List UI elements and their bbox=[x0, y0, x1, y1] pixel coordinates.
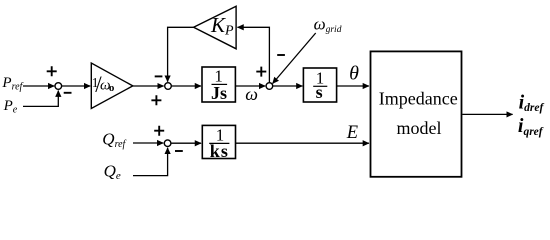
svg-text:Pref: Pref bbox=[1, 75, 23, 93]
svg-text:ω: ω bbox=[245, 84, 258, 104]
svg-text:Impedance: Impedance bbox=[379, 88, 458, 108]
svg-text:ks: ks bbox=[210, 141, 229, 161]
svg-text:Pe: Pe bbox=[3, 98, 18, 116]
svg-text:o: o bbox=[109, 82, 115, 94]
svg-text:model: model bbox=[397, 118, 442, 138]
svg-text:ωgrid: ωgrid bbox=[314, 15, 342, 35]
svg-text:E: E bbox=[346, 123, 358, 143]
svg-text:Qe: Qe bbox=[104, 162, 121, 183]
svg-text:θ: θ bbox=[349, 62, 359, 84]
svg-text:Js: Js bbox=[211, 83, 227, 103]
svg-text:iqref: iqref bbox=[518, 115, 544, 138]
svg-text:Qref: Qref bbox=[102, 130, 126, 151]
svg-text:idref: idref bbox=[519, 92, 545, 115]
svg-text:s: s bbox=[316, 82, 323, 102]
